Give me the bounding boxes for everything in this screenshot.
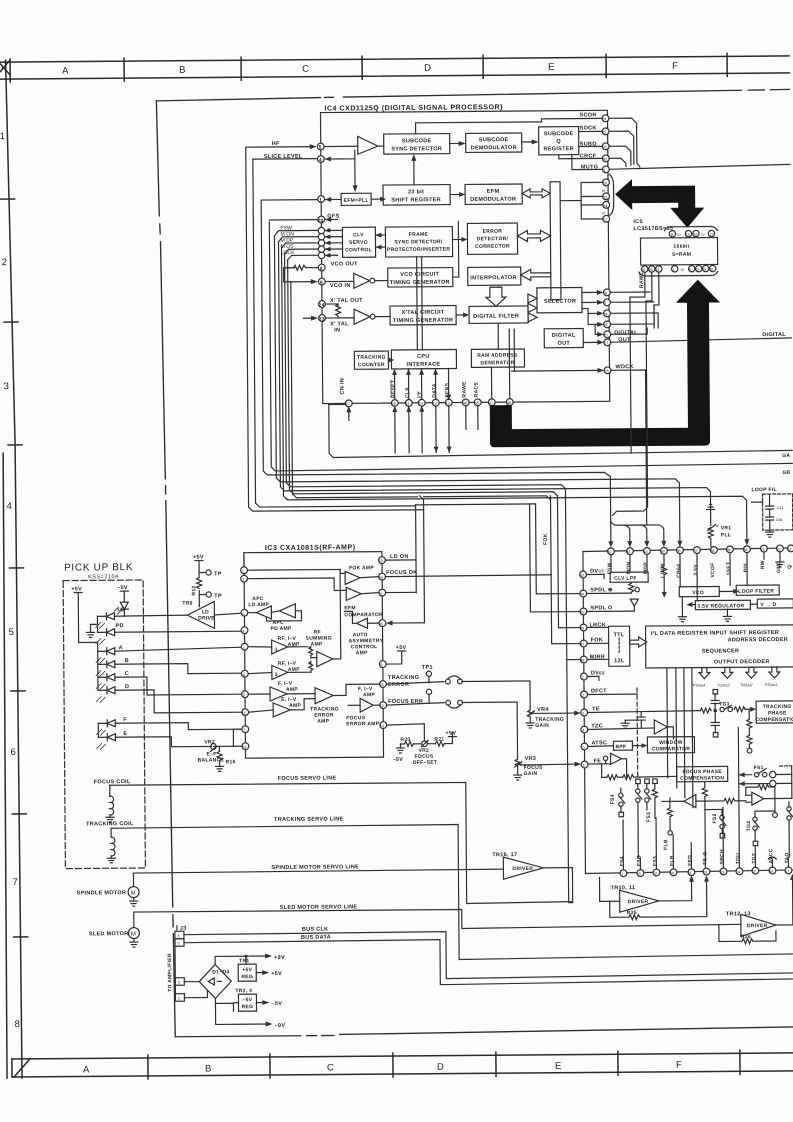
servo left pin labels [589,568,614,764]
svg-text:A: A [62,66,69,77]
svg-text:14: 14 [380,724,384,728]
svg-text:TP: TP [214,593,222,599]
box INTERPOLATOR [468,267,521,285]
svg-text:16kbit: 16kbit [673,244,689,250]
resistor below CLV LPF [629,582,640,611]
servo bottom pins [620,867,792,877]
svg-text:30: 30 [602,157,606,161]
FOCUS OK wire [385,569,551,577]
TRACKING COIL [86,821,134,863]
svg-text:4: 4 [7,501,12,512]
box DIGITAL OUT [544,329,583,348]
svg-text:D: D [437,1062,444,1073]
J3 connector [167,926,187,1002]
VCO loop resistor [284,265,319,278]
svg-text:TP: TP [214,571,222,577]
wire FSW bus [274,233,682,550]
svg-text:14: 14 [419,402,423,406]
pin WDCK [511,367,610,375]
svg-text:CORRECTOR: CORRECTOR [475,244,510,250]
svg-text:SOCK: SOCK [580,125,597,131]
TR1 +5V REG [238,958,282,981]
black data bus L arrow (bottom, from DSP to S-RAM) [489,279,721,447]
pin 24 X'TAL OUT [318,301,325,309]
svg-text:10: 10 [392,402,396,406]
svg-text:SPINDLE MOTOR SERVO LINE: SPINDLE MOTOR SERVO LINE [271,864,359,871]
input buffer amp [324,136,384,154]
svg-text:11: 11 [406,402,410,406]
top ruler band [0,53,789,82]
svg-text:47: 47 [580,643,584,647]
svg-text:to: to [677,233,680,237]
CPU pins wires up into box [392,369,451,401]
TR8 LD DRIVE triangle [182,600,241,628]
svg-text:B: B [125,658,129,664]
svg-text:15: 15 [752,870,756,874]
svg-text:SPDL ⊕: SPDL ⊕ [590,587,613,593]
EFM COMPARATOR label [344,605,383,618]
wire SLED MOTOR SERVO LINE [134,901,741,931]
box 23 bit SHIFT REGISTER [383,185,450,206]
svg-text:SYNC DETECTOR: SYNC DETECTOR [391,146,442,152]
wire WDCK down to servo [611,370,647,525]
FLB resistor chain [663,798,673,850]
svg-text:PHASE: PHASE [768,710,787,716]
svg-text:TE: TE [592,706,600,712]
svg-text:CB64: CB64 [676,564,682,578]
servo top pin labels vertical [607,560,793,578]
svg-text:12: 12 [433,402,437,406]
wire top loop from sync detector [416,118,602,133]
svg-text:TR2, 4: TR2, 4 [235,988,252,994]
box FRAME SYNC DETECTOR/PROTECTOR/INSERTER [385,227,452,258]
svg-text:AMP: AMP [363,692,375,698]
pin 28 GFS [269,216,337,224]
wires from selector pins bending down [610,292,658,334]
wire efmpll to shift register [371,197,386,202]
wire SLICE LEVEL into pin 4 [253,156,342,162]
svg-text:CLK: CLK [405,387,411,398]
internal vertical bus bar [550,182,561,300]
svg-text:17: 17 [709,232,713,236]
box SELECTOR [537,288,582,313]
FOCUS ERROR label + wire [386,698,517,760]
LD/PD common + ground [86,616,97,637]
photodiode B [96,657,242,676]
svg-text:7: 7 [621,872,623,876]
svg-text:1: 1 [673,268,675,272]
svg-text:B: B [205,1063,211,1074]
svg-text:2: 2 [242,578,244,582]
svg-text:DIGITAL: DIGITAL [552,333,576,339]
svg-text:TG2: TG2 [751,853,757,864]
svg-text:SLICE LEVEL: SLICE LEVEL [264,154,303,160]
schematic outer border left edge [156,101,159,216]
VR4 tracking gain [526,707,564,729]
svg-text:48: 48 [580,659,584,663]
VCO buffer [325,273,388,288]
svg-text:TGU: TGU [735,853,741,865]
svg-text:FS1to4: FS1to4 [693,684,705,688]
svg-text:5: 5 [9,627,14,638]
svg-text:V → D: V → D [760,602,776,608]
svg-text:DATA BUS: DATA BUS [636,193,675,200]
svg-text:20: 20 [649,268,653,272]
svg-text:CPU: CPU [417,354,430,360]
svg-text:+5V: +5V [396,645,407,651]
TE internal: resistors and TG1 [587,689,756,738]
APC PD AMP [266,604,301,632]
svg-text:39: 39 [660,550,664,554]
svg-text:38: 38 [726,548,730,552]
svg-text:ERROR: ERROR [483,229,503,235]
amp2 below FOK [340,587,378,600]
svg-text:TG1to2: TG1to2 [717,683,730,687]
svg-text:2: 2 [582,694,584,698]
svg-text:F: F [676,1060,682,1071]
box SUBCODE DEMODULATOR [466,133,522,152]
svg-text:8: 8 [671,233,673,237]
box CLV LPF [610,572,648,582]
svg-text:13: 13 [685,233,689,237]
SPINDLE MOTOR [76,873,139,906]
long wire DIGITAL OUT to right edge [611,338,792,342]
svg-text:SCOR: SCOR [579,112,596,118]
ruler ticks [9,59,11,82]
svg-text:INTERFACE: INTERFACE [406,362,440,368]
svg-text:HF: HF [272,141,280,147]
TR10,11 DRIVER [599,875,709,920]
box SUBCODE Q REGISTER [539,127,579,155]
LD photodiode [96,607,188,629]
svg-text:SUBCODE: SUBCODE [402,138,432,144]
svg-text:ADDRESS DECODER: ADDRESS DECODER [728,637,788,643]
svg-text:4: 4 [319,158,322,164]
box VCO [679,586,719,596]
svg-text:46: 46 [580,627,584,631]
pins column 16-37 right edge [560,179,610,223]
svg-text:15: 15 [379,622,383,626]
TR2,4 -5V REG [233,988,282,1011]
svg-text:9: 9 [654,871,656,875]
svg-text:4: 4 [178,981,180,985]
svg-text:X' TAL OUT: X' TAL OUT [330,298,363,304]
svg-text:FOK AMP: FOK AMP [349,565,374,571]
svg-text:31: 31 [760,548,764,552]
pin 8 VCO OUT [318,264,325,272]
wire SLICE LEVEL [253,158,416,507]
svg-text:C41: C41 [777,506,784,510]
svg-text:RACS: RACS [474,382,480,398]
svg-text:TG2: TG2 [746,821,752,832]
RF I-V 1 amp [248,636,308,654]
svg-text:21: 21 [656,268,660,272]
bridge rectifier D1-D4 [184,964,231,998]
svg-text:SRCH: SRCH [719,849,725,865]
svg-text:DRIVE: DRIVE [198,615,215,621]
svg-text:R12: R12 [191,585,197,595]
svg-text:F: F [672,61,678,72]
op-amp mid [662,794,746,808]
svg-text:SLED MOTOR: SLED MOTOR [89,931,129,937]
svg-text:5: 5 [604,301,606,305]
svg-text:17: 17 [346,402,350,406]
svg-text:5: 5 [177,942,179,946]
column letters [83,1060,682,1076]
svg-text:REG: REG [241,974,253,980]
svg-text:BUS DATA: BUS DATA [301,935,331,941]
bottom ruler band [12,1050,793,1080]
wire LRCK vertical [557,496,579,628]
svg-text:R16: R16 [226,759,236,765]
svg-text:DATA: DATA [432,383,438,397]
S-RAM top pins [664,226,717,237]
svg-text:to: to [602,189,605,193]
selector output pins [582,289,611,338]
svg-text:DRIVER: DRIVER [628,899,649,905]
svg-text:DETECTOR/: DETECTOR/ [477,236,509,242]
svg-text:48: 48 [507,401,511,405]
svg-text:VR4: VR4 [537,707,549,713]
svg-text:TTL: TTL [614,632,625,638]
box TTL 12L [609,626,630,666]
svg-text:44: 44 [580,593,584,597]
svg-text:BALANCE: BALANCE [198,757,225,763]
dashed LOOP FIL box top right [751,487,792,537]
svg-text:IC4 CXD1125Q (DIGITAL SIGNAL P: IC4 CXD1125Q (DIGITAL SIGNAL PROCESSOR) [324,104,503,112]
wire pin7 to e-f [233,729,242,746]
svg-text:FRAME: FRAME [409,232,429,238]
FE lowpass line with resistors [602,763,677,780]
svg-text:LOOP FIL: LOOP FIL [751,487,776,493]
svg-text:to: to [701,233,704,237]
label DIGITAL OUT right of pin [614,330,638,343]
svg-text:16: 16 [693,233,697,237]
FS4 switch chain [610,788,625,817]
svg-text:FS1: FS1 [754,765,764,771]
CPU pins wires down below [392,405,478,453]
svg-text:23 bit: 23 bit [408,189,424,195]
svg-text:2: 2 [178,997,180,1001]
svg-text:1SET: 1SET [726,562,732,576]
svg-text:12: 12 [703,871,707,875]
svg-text:+5V: +5V [242,967,252,973]
svg-text:OUTPUT DECODER: OUTPUT DECODER [714,659,770,665]
+5V left supply [71,586,97,642]
svg-text:34: 34 [603,204,607,208]
svg-text:36: 36 [676,549,680,553]
svg-text:24: 24 [318,303,324,309]
power rails [215,953,285,1029]
svg-text:RAWE: RAWE [462,381,468,398]
svg-text:OUT: OUT [558,341,571,347]
svg-text:FOK: FOK [591,637,604,643]
box LOOP FILTER [736,585,779,595]
svg-text:TO AMPLIFIER: TO AMPLIFIER [167,953,173,992]
svg-text:EFM: EFM [487,189,500,195]
F I-V amp [248,681,314,702]
CN IN label + wire [329,378,352,421]
big box I2L DATA REGISTER [646,625,793,668]
svg-text:FS4: FS4 [619,856,625,866]
svg-text:+5V: +5V [193,555,204,561]
svg-text:TRACKING SERVO LINE: TRACKING SERVO LINE [274,816,344,823]
CPU pins vertical labels [391,379,480,398]
svg-text:Q: Q [787,565,793,569]
svg-text:GA: GA [782,453,790,459]
svg-text:FS3: FS3 [646,812,652,822]
dashed vertical inside servo [636,688,639,776]
box VCO CIRCUIT TIMING GENERATOR [388,268,453,288]
svg-text:FS4: FS4 [610,794,616,804]
svg-text:3.5V REGULATOR: 3.5V REGULATOR [697,603,744,609]
wire frame to error detector [452,237,467,242]
corner diagonal [14,1059,30,1077]
svg-text:AVCC: AVCC [768,848,774,863]
wire shreg to efm demod [450,192,465,197]
svg-text:3: 3 [243,646,245,650]
svg-text:37: 37 [693,549,697,553]
xtal resistor [325,304,340,318]
pin 5 [317,143,324,150]
row ticks [1,198,15,200]
wires pin1 pin2 into amps [247,569,340,591]
wire TE from VR4 [533,711,581,716]
svg-text:FS3: FS3 [652,856,658,866]
svg-text:15: 15 [695,268,699,272]
svg-text:WINDOW: WINDOW [659,740,683,746]
svg-text:TZC: TZC [591,723,603,729]
svg-text:FLB: FLB [663,839,669,850]
open arrow EFM demod to busbar [522,189,550,198]
pickup dashed box [63,580,145,869]
wire subcode sync to demod [450,141,466,146]
svg-text:19: 19 [603,312,607,316]
servo left pins [580,571,588,768]
svg-text:A: A [83,1064,90,1075]
open arrow error det to busbar [517,230,550,241]
op-amp right [746,784,792,817]
inner schematic border (bottom edge) [175,1027,793,1037]
wire GFS down to bus [269,218,792,471]
svg-text:DIGITAL FILTER: DIGITAL FILTER [473,314,519,320]
svg-text:TR1: TR1 [239,958,249,964]
svg-text:33: 33 [776,547,780,551]
ticks [147,1055,149,1079]
FSW..LOCK label tags [274,225,342,260]
svg-text:46: 46 [463,401,467,405]
svg-text:27: 27 [604,341,608,345]
DVCC underline marks [587,574,638,694]
svg-text:SUBCODE: SUBCODE [479,137,509,143]
wires qreg to pins [559,131,602,169]
frame sync verticals down to cpu [417,257,423,350]
svg-text:GFS: GFS [327,213,339,219]
svg-text:RAM ADDRESS: RAM ADDRESS [477,353,518,359]
svg-text:6: 6 [177,934,179,938]
wire TZC comparator [588,712,674,740]
box EFM-PLL [341,193,371,205]
servo IC outline [583,548,793,874]
svg-text:AMP: AMP [289,703,301,709]
box ERROR DETECTOR/CORRECTOR [467,223,517,254]
svg-text:D: D [125,684,129,690]
svg-text:42: 42 [607,550,611,554]
svg-text:FOK: FOK [543,533,549,545]
svg-text:18: 18 [603,291,607,295]
svg-text:VCO CIRCUIT: VCO CIRCUIT [400,272,439,278]
box 3.5V REGULATOR [695,600,750,609]
svg-text:DVEE: DVEE [591,670,605,676]
svg-text:IC3 CXA1081S(RF-AMP): IC3 CXA1081S(RF-AMP) [265,544,356,552]
svg-text:25: 25 [602,130,606,134]
column letters [62,61,678,77]
svg-text:4: 4 [582,729,584,733]
svg-text:TIMING GENERATOR: TIMING GENERATOR [390,280,450,286]
svg-text:EFM: EFM [344,605,356,611]
svg-text:INTERPOLATOR: INTERPOLATOR [470,275,517,281]
svg-text:KSS=210A: KSS=210A [88,574,119,580]
svg-text:Q: Q [556,139,561,145]
svg-text:41: 41 [626,550,630,554]
svg-text:CONTROL: CONTROL [345,247,372,253]
switch chains mid (FS3 etc) [636,779,658,858]
svg-text:23: 23 [378,559,382,563]
svg-text:to: to [681,268,684,272]
wire M DP bus [282,244,750,549]
left ruler band [0,60,29,1078]
+5V at pin9 [386,645,407,664]
RF SUMMING AMP [305,569,341,672]
brace around pins [609,174,613,215]
svg-text:8: 8 [15,1019,20,1030]
svg-text:18: 18 [641,268,645,272]
wire FOK vertical to servo [550,496,579,644]
schematic outer border top edge [156,89,793,1036]
IC5 S-RAM box [640,237,717,265]
svg-text:47: 47 [489,401,493,405]
svg-text:PROTECTOR/INSERTER: PROTECTOR/INSERTER [387,247,451,253]
TR16,17 DRIVER [492,852,572,880]
svg-text:21: 21 [379,592,383,596]
E I-V amp [248,697,314,718]
TRACKING ERROR label + wire [386,674,530,711]
wires from S-RAM bottom-left pins down [611,272,661,515]
labels SCOR SOCK SUBQ CRCF MUTG [579,112,598,170]
box TRACKING PHASE COMPENSATION [755,701,793,723]
svg-text:GAIN: GAIN [524,771,538,777]
wire HF into pin 5 [246,144,317,150]
svg-text:6: 6 [583,764,585,768]
svg-text:C: C [125,671,129,677]
AUTO ASYMMETRY tri [344,611,383,656]
svg-text:IN: IN [334,327,340,333]
wire EFM-PLL pin1 down to bus [261,198,666,550]
svg-text:TRACKING: TRACKING [357,355,386,361]
svg-text:9: 9 [380,663,382,667]
svg-text:M: M [131,891,136,897]
svg-text:26: 26 [605,369,609,373]
svg-text:26: 26 [379,683,383,687]
VR1 PLL [707,504,732,546]
pin 1 EFM-PLL [261,196,341,205]
svg-text:to: to [602,211,605,215]
svg-text:–5V: –5V [243,997,253,1003]
svg-text:FLB: FLB [669,855,675,866]
photodiode D [96,683,242,713]
svg-text:+5V: +5V [445,731,456,737]
svg-text:LD: LD [117,607,125,613]
